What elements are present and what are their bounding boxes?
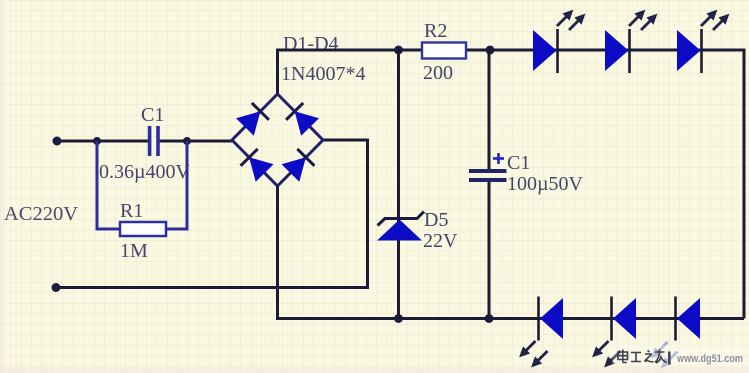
node: left terminal (live): [53, 137, 62, 146]
capacitor C1 (film, 0.36u400V): [148, 126, 160, 156]
node: left terminal (neutral): [52, 283, 61, 292]
svg-text:200: 200: [423, 62, 453, 84]
svg-text:1N4007*4: 1N4007*4: [281, 63, 365, 85]
LED DS3 (top row 3): [677, 10, 729, 73]
node: R1 branch left junction: [93, 137, 101, 145]
node: cap bottom junction: [485, 314, 494, 323]
LED DS2 (top row 2): [605, 10, 657, 73]
node: cap tap on top rail: [486, 46, 495, 55]
LED DS6 (bottom row 3, pointing left): [651, 297, 700, 368]
wire: bridge + output up and right to R2: [278, 50, 423, 94]
svg-text:R2: R2: [424, 20, 447, 42]
LED DS4 (bottom row 1, pointing left): [519, 297, 563, 368]
svg-text:www.dg51.com: www.dg51.com: [676, 353, 743, 365]
wire: bridge - output down and bottom DC rail to right edge: [278, 186, 745, 319]
watermark CJK glyphs (dian gong zhi you): [618, 350, 667, 364]
resistor R1: [120, 222, 166, 236]
wire: R2 to LED string and right edge down: [466, 50, 744, 319]
svg-text:22V: 22V: [423, 230, 458, 252]
watermark separator: [668, 352, 671, 365]
capacitor C1 (electrolytic 100u50V): [469, 169, 507, 182]
wire: zener branch vertical: [397, 50, 400, 319]
wire: electrolytic cap branch lower: [488, 182, 491, 319]
diode D1 (bridge upper-left): [236, 103, 269, 136]
node: zener bottom junction: [394, 314, 403, 323]
zener diode D5: [377, 212, 424, 241]
bridge rectifier D1-D4 outline: [232, 94, 323, 186]
svg-text:R1: R1: [120, 200, 143, 222]
wire: top AC live from left terminal to C1 left plate: [57, 140, 148, 143]
node: zener tap on top rail: [394, 46, 403, 55]
node: R1 branch right junction: [183, 137, 191, 145]
wire: electrolytic cap branch upper: [488, 50, 491, 170]
svg-text:D1-D4: D1-D4: [283, 33, 339, 55]
LED DS5 (bottom row 2, pointing left): [592, 297, 636, 368]
svg-text:1M: 1M: [120, 240, 148, 262]
watermark backdrop: [612, 345, 744, 366]
LED DS1 (top row 1): [533, 10, 585, 73]
wire: C1 right plate to bridge left vertex: [159, 140, 232, 143]
resistor R2: [422, 43, 466, 59]
svg-text:D5: D5: [424, 209, 448, 231]
wire: R1 parallel loop left side: [97, 141, 120, 229]
wire: bottom AC neutral from left terminal to bridge right vertex: [56, 140, 368, 288]
svg-text:0.36µ400V: 0.36µ400V: [99, 161, 191, 183]
diode D4 (bridge lower-right): [282, 149, 315, 182]
svg-text:C1: C1: [507, 152, 530, 174]
diode D3 (bridge lower-left): [241, 149, 274, 182]
svg-text:C1: C1: [141, 104, 164, 126]
svg-text:AC220V: AC220V: [4, 203, 78, 225]
diode D2 (bridge upper-right): [286, 103, 319, 136]
polarity plus sign: [493, 153, 504, 164]
svg-text:100µ50V: 100µ50V: [507, 173, 584, 195]
wire: R1 parallel loop right side: [166, 141, 187, 229]
